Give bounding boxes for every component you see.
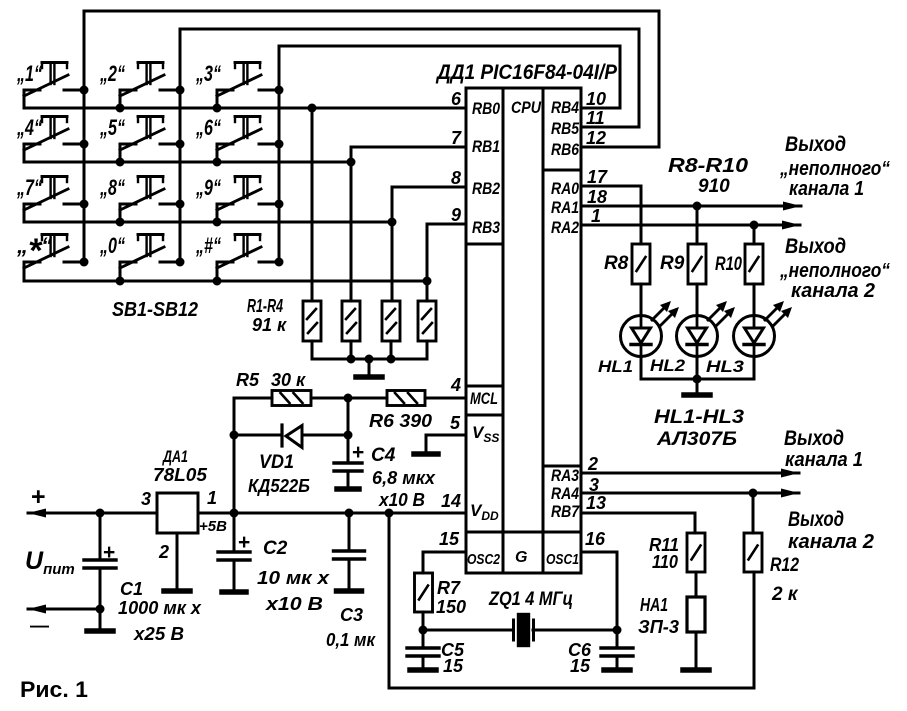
svg-text:13: 13 <box>586 493 606 513</box>
svg-text:18: 18 <box>587 187 607 207</box>
svg-text:RB6: RB6 <box>551 140 579 159</box>
svg-text:110: 110 <box>652 552 678 572</box>
svg-text:CPU: CPU <box>511 98 542 117</box>
svg-text:HL3: HL3 <box>706 357 745 376</box>
svg-text:х10 В: х10 В <box>378 490 425 510</box>
svg-text:16: 16 <box>585 529 606 549</box>
svg-text:канала 1: канала 1 <box>785 449 863 471</box>
svg-text:RA1: RA1 <box>551 198 579 217</box>
svg-text:10 мк х: 10 мк х <box>257 568 330 588</box>
svg-text:АЛ307Б: АЛ307Б <box>656 429 737 450</box>
svg-text:RA2: RA2 <box>551 218 579 237</box>
svg-text:+: + <box>31 483 46 511</box>
svg-text:MCL: MCL <box>470 390 498 408</box>
svg-text:6,8 мкх: 6,8 мкх <box>372 468 436 488</box>
svg-text:G: G <box>515 549 527 566</box>
svg-text:12: 12 <box>586 128 606 148</box>
svg-text:RB1: RB1 <box>472 137 500 156</box>
svg-text:6: 6 <box>451 89 462 109</box>
svg-text:—: — <box>30 616 49 637</box>
svg-text:RA0: RA0 <box>551 179 579 198</box>
svg-text:0,1 мк: 0,1 мк <box>326 630 376 650</box>
svg-text:ZQ1 4 МГц: ZQ1 4 МГц <box>488 589 573 610</box>
svg-text:Рис. 1: Рис. 1 <box>20 677 88 702</box>
svg-text:канала 1: канала 1 <box>789 178 864 200</box>
svg-text:Выход: Выход <box>788 508 844 531</box>
svg-text:„*“: „*“ <box>16 232 52 270</box>
svg-text:„3“: „3“ <box>195 61 221 86</box>
svg-text:R10: R10 <box>715 254 742 275</box>
svg-text:ДА1: ДА1 <box>162 447 188 466</box>
svg-text:„0“: „0“ <box>99 233 125 258</box>
svg-text:C2: C2 <box>263 538 288 559</box>
svg-text:10: 10 <box>586 89 606 109</box>
svg-text:+: + <box>103 541 115 564</box>
svg-text:RB5: RB5 <box>551 119 579 138</box>
svg-text:„9“: „9“ <box>195 175 221 200</box>
svg-text:4: 4 <box>450 375 461 395</box>
svg-text:R6 390: R6 390 <box>369 411 432 431</box>
svg-text:14: 14 <box>441 491 461 511</box>
svg-text:HL2: HL2 <box>650 356 686 375</box>
svg-text:150: 150 <box>436 597 466 617</box>
svg-text:„5“: „5“ <box>99 115 125 140</box>
svg-text:R8: R8 <box>604 253 629 274</box>
svg-text:„неполного“: „неполного“ <box>779 158 890 180</box>
svg-text:2 к: 2 к <box>771 584 799 605</box>
svg-text:R5: R5 <box>236 370 260 390</box>
svg-text:15: 15 <box>570 656 591 676</box>
svg-text:„2“: „2“ <box>99 61 125 86</box>
svg-text:3: 3 <box>141 489 151 509</box>
svg-text:HA1: HA1 <box>640 595 668 615</box>
svg-text:8: 8 <box>451 168 461 188</box>
svg-text:1: 1 <box>207 488 217 508</box>
svg-text:RA4: RA4 <box>551 484 579 503</box>
svg-text:+: + <box>238 531 250 554</box>
svg-text:C3: C3 <box>340 605 363 625</box>
svg-text:1: 1 <box>591 206 601 226</box>
svg-text:17: 17 <box>587 167 608 187</box>
svg-text:OSC2: OSC2 <box>467 552 500 568</box>
svg-text:ЗП-3: ЗП-3 <box>638 617 679 637</box>
svg-text:HL1-HL3: HL1-HL3 <box>654 407 744 428</box>
svg-text:RB7: RB7 <box>551 502 580 521</box>
svg-text:VD1: VD1 <box>259 452 294 473</box>
svg-text:Выход: Выход <box>785 235 846 258</box>
svg-text:х10 В: х10 В <box>265 594 323 614</box>
svg-text:КД522Б: КД522Б <box>248 476 310 496</box>
svg-text:ДД1 PIC16F84-04I/P: ДД1 PIC16F84-04I/P <box>435 61 618 84</box>
svg-text:2: 2 <box>587 454 598 474</box>
svg-text:11: 11 <box>586 108 605 128</box>
svg-text:RB3: RB3 <box>472 218 500 237</box>
svg-text:Выход: Выход <box>785 133 846 156</box>
svg-text:15: 15 <box>443 656 464 676</box>
svg-text:R8-R10: R8-R10 <box>668 155 748 177</box>
svg-text:„неполного“: „неполного“ <box>779 260 890 282</box>
svg-text:91 к: 91 к <box>252 315 287 335</box>
svg-text:30 к: 30 к <box>271 370 306 390</box>
svg-text:„6“: „6“ <box>195 115 221 140</box>
svg-text:5: 5 <box>450 413 461 433</box>
svg-text:+: + <box>352 441 364 464</box>
svg-text:Выход: Выход <box>784 427 844 450</box>
svg-text:1000 мк х: 1000 мк х <box>118 598 202 618</box>
svg-text:910: 910 <box>698 176 730 197</box>
svg-text:RA3: RA3 <box>551 466 579 485</box>
svg-text:R12: R12 <box>770 555 799 576</box>
svg-text:OSC1: OSC1 <box>546 552 579 568</box>
svg-text:„#“: „#“ <box>195 233 221 258</box>
svg-text:R7: R7 <box>437 578 461 598</box>
svg-text:„7“: „7“ <box>16 175 42 200</box>
svg-text:канала 2: канала 2 <box>788 531 874 553</box>
svg-text:C4: C4 <box>371 445 396 466</box>
svg-text:канала 2: канала 2 <box>791 280 875 302</box>
svg-text:78L05: 78L05 <box>153 465 208 485</box>
svg-text:9: 9 <box>451 205 461 225</box>
svg-text:RB2: RB2 <box>472 179 500 198</box>
svg-text:C1: C1 <box>120 579 143 599</box>
svg-text:2: 2 <box>158 542 169 562</box>
svg-text:7: 7 <box>451 128 462 148</box>
svg-text:HL1: HL1 <box>598 357 633 376</box>
svg-text:SB1-SB12: SB1-SB12 <box>112 299 198 321</box>
svg-text:х25 В: х25 В <box>133 624 184 644</box>
svg-text:+5В: +5В <box>199 518 227 535</box>
svg-text:15: 15 <box>439 529 460 549</box>
svg-text:VSS: VSS <box>472 423 499 445</box>
svg-text:R9: R9 <box>660 253 685 274</box>
svg-text:RB4: RB4 <box>551 98 579 117</box>
svg-text:„8“: „8“ <box>99 175 125 200</box>
svg-text:VDD: VDD <box>470 501 499 523</box>
svg-text:„1“: „1“ <box>16 61 42 86</box>
svg-text:R1-R4: R1-R4 <box>247 296 283 316</box>
svg-text:Uпит: Uпит <box>25 547 75 578</box>
svg-text:„4“: „4“ <box>16 115 42 140</box>
svg-text:RB0: RB0 <box>472 99 500 118</box>
